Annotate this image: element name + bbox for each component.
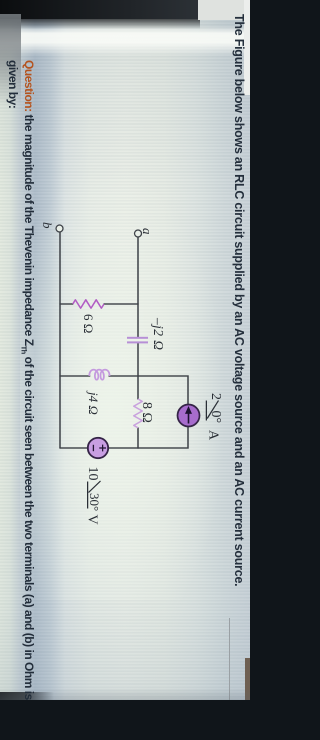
question bbox=[20, 60, 36, 740]
terminal b bbox=[56, 225, 63, 232]
white sliver top-left bbox=[244, 0, 250, 95]
right edge slight shade bbox=[0, 688, 250, 700]
resistor 6ohm (vertical zigzag) bbox=[73, 300, 104, 308]
title bbox=[232, 14, 246, 694]
svg-text:2: 2 bbox=[208, 393, 223, 400]
white strip right of the black bar bbox=[0, 26, 250, 56]
wire: top rail after 8ohm to right node bbox=[137, 428, 139, 448]
angle symbol underline bbox=[205, 401, 207, 421]
pale patch above left bar bbox=[198, 0, 250, 20]
svg-text:6 Ω: 6 Ω bbox=[81, 314, 96, 333]
bar soft shadow bbox=[0, 19, 200, 29]
wire: bottom rail bbox=[59, 232, 61, 448]
scanline texture bbox=[0, 0, 250, 700]
angle symbol slash 2 bbox=[89, 481, 101, 493]
svg-text:8 Ω: 8 Ω bbox=[139, 402, 154, 423]
svg-text:b: b bbox=[40, 222, 55, 229]
wire: 6ohm branch bottom bbox=[60, 303, 73, 305]
capacitor -j2 plates bbox=[127, 337, 148, 339]
terminal a bbox=[135, 230, 142, 237]
svg-text:0°: 0° bbox=[208, 411, 223, 424]
thin edge line top right bbox=[229, 618, 231, 700]
current source arrow (points left) bbox=[188, 412, 190, 424]
current source I1 bbox=[178, 405, 200, 427]
svg-text:V: V bbox=[85, 515, 100, 525]
angle symbol slash bbox=[207, 401, 218, 419]
dark patch bottom-right corner bbox=[0, 692, 54, 700]
svg-text:A: A bbox=[206, 430, 221, 441]
wire: 6ohm branch top bbox=[104, 303, 138, 305]
svg-text:j4 Ω: j4 Ω bbox=[86, 390, 101, 415]
wire: voltage source branch bottom bbox=[60, 447, 88, 449]
angle symbol underline 2 bbox=[87, 482, 89, 509]
svg-text:a: a bbox=[140, 228, 155, 235]
wire: j4 branch bottom bbox=[60, 375, 90, 377]
wire: j4 branch top bbox=[109, 375, 138, 377]
black left bar bbox=[0, 0, 200, 19]
voltage source V1 bbox=[88, 438, 108, 458]
resistor 8ohm (horizontal zigzag in top rail) bbox=[134, 399, 142, 428]
wire: current-source bridge left riser bbox=[138, 376, 188, 404]
label 2 angle 0 A bbox=[206, 393, 224, 441]
wire: top rail left (a to 6ohm node to cap) bbox=[137, 237, 139, 337]
minus sign bbox=[92, 445, 94, 451]
soft pale glow in circuit zone bbox=[20, 180, 220, 600]
svg-text:30°: 30° bbox=[87, 493, 102, 511]
label 10 angle 30 V bbox=[85, 467, 103, 525]
wire: voltage source branch top bbox=[108, 447, 138, 449]
horizontal tint bbox=[0, 0, 250, 700]
plus sign bbox=[99, 445, 106, 452]
wire: current-source bridge right riser bbox=[138, 426, 188, 448]
inductor j4 (vertical coil) bbox=[89, 370, 109, 380]
svg-text:–j2 Ω: –j2 Ω bbox=[151, 317, 166, 350]
dark sliver top-right bbox=[245, 658, 250, 700]
svg-text:10: 10 bbox=[85, 467, 100, 481]
wire: top rail cap to j4 node to 8ohm bbox=[137, 343, 139, 399]
gray patch right of bar bottom bbox=[0, 14, 21, 106]
